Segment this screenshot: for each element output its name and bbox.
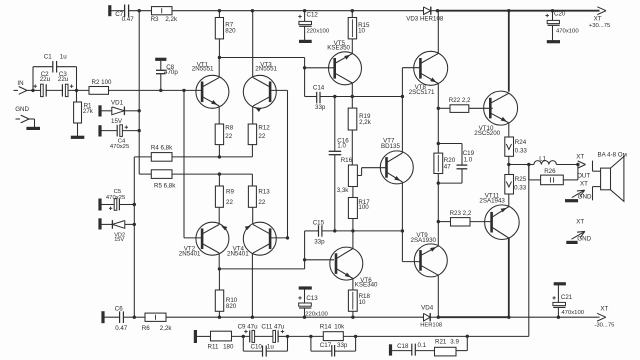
node R7 top [218, 9, 221, 12]
svg-text:R25: R25 [515, 176, 527, 183]
wire VT3 collector to +rail [252, 11, 254, 78]
svg-text:1u: 1u [60, 54, 67, 61]
node VT3 collector rail [251, 9, 254, 12]
node VT5 collector/R19 [351, 95, 354, 98]
node VT4 base feedback [286, 236, 289, 239]
wire R22 to VT10 base [469, 107, 493, 109]
resistor R23 2,2 [450, 210, 472, 226]
svg-text:HER108: HER108 [420, 323, 442, 329]
node C16 top [333, 95, 336, 98]
svg-text:820: 820 [225, 28, 236, 35]
svg-text:22: 22 [225, 133, 232, 140]
node output [507, 163, 510, 166]
capacitor C13 220x100 [298, 288, 328, 318]
ground C21 [554, 282, 566, 285]
svg-text:R23 2,2: R23 2,2 [450, 210, 472, 217]
node C6/-rail junction [133, 316, 136, 319]
svg-text:2SA1943: 2SA1943 [479, 198, 505, 205]
wire VT10 emitter to R24 [508, 123, 510, 137]
wire VT7 base tap [357, 168, 386, 176]
svg-text:R16: R16 [341, 157, 353, 164]
terminal XT GND upper [572, 181, 592, 201]
ground C4 [98, 125, 101, 136]
wire VT9 base drop [402, 231, 420, 262]
wire VD4 to VT9 node [430, 316, 438, 318]
terminal IN arrow [14, 80, 28, 95]
svg-text:820: 820 [226, 303, 237, 310]
node R15 top [351, 9, 354, 12]
svg-text:C10: C10 [251, 344, 263, 351]
capacitor C4 470x25 [110, 125, 130, 150]
svg-text:GND: GND [15, 106, 29, 113]
wire R7 to VT1 collector node [218, 39, 220, 58]
node C3/R1/C1 bracket right [75, 89, 78, 92]
node C12 top [303, 9, 306, 12]
resistor R5 6,8k [151, 170, 176, 190]
transistor VT1 2N5551 [192, 61, 229, 108]
node R20/C19 bottom [437, 181, 440, 184]
node C8 tap [159, 89, 162, 92]
capacitor C16 1.0 [329, 97, 350, 231]
ground C13 [299, 286, 312, 289]
wire VT7 collector / VAS node [401, 68, 403, 153]
node input/C1 bracket left [31, 89, 34, 92]
wire VT2 base drop to bar [184, 90, 202, 238]
svg-text:33p: 33p [314, 239, 325, 246]
node VT6 collector/R17 [351, 229, 354, 232]
transistor VT5 KSE350 [327, 40, 361, 85]
wire line to Zobel node [390, 335, 467, 337]
svg-text:15V: 15V [111, 118, 123, 125]
transistor VT9 2SA1930 [411, 232, 448, 277]
svg-text:BA 4-8 Ом: BA 4-8 Ом [598, 152, 627, 159]
node VT5 base junction [303, 66, 306, 69]
wire VT8 collector to +rail [437, 11, 439, 54]
wire R23 to VT11 base [470, 221, 493, 223]
resistor R1 27k [74, 102, 94, 123]
node output/L1 branch [527, 163, 530, 166]
svg-text:22: 22 [226, 199, 233, 206]
node R18 -rail [351, 316, 354, 319]
svg-text:0.33: 0.33 [514, 185, 527, 192]
svg-text:XT: XT [580, 181, 588, 188]
svg-text:KSE350: KSE350 [327, 45, 350, 52]
node R23 tap [437, 220, 440, 223]
wire VT6 emitter to R18 [352, 279, 354, 291]
svg-text:220x100: 220x100 [305, 312, 328, 318]
svg-text:15V: 15V [114, 237, 124, 243]
wire output line [509, 164, 534, 166]
resistor R17 100 [348, 198, 370, 219]
wire C5 to bias line [119, 204, 134, 206]
node Zobel [466, 335, 469, 338]
svg-text:0.1: 0.1 [418, 342, 427, 349]
resistor R14 10k [320, 323, 345, 340]
svg-text:R8: R8 [225, 124, 233, 131]
resistor R16 3,3k [337, 157, 358, 194]
wire R7 top [218, 11, 220, 18]
wire C17 bridge [311, 336, 356, 351]
node R26 right join [576, 163, 579, 166]
svg-text:2SA1930: 2SA1930 [411, 237, 437, 244]
wire C18 to R21 [415, 350, 434, 352]
node C5 junction [133, 203, 136, 206]
wire R9 top [218, 174, 220, 186]
svg-text:-30...75: -30...75 [594, 323, 615, 329]
wire VT4 emitter to R13 [252, 207, 254, 224]
node C13 -rail [303, 316, 306, 319]
capacitor C21 470x100 [552, 284, 584, 317]
svg-text:R11: R11 [208, 343, 219, 350]
svg-text:KSE340: KSE340 [355, 282, 378, 289]
node R20/C19 top [437, 142, 440, 145]
ground R1 [71, 136, 85, 139]
svg-text:R14: R14 [320, 323, 332, 330]
wire C9 to C11 [255, 335, 273, 337]
wire VT6 collector [352, 231, 354, 249]
resistor R21 3.9 [435, 339, 460, 356]
node VAS output upper [401, 95, 404, 98]
resistor R3 [151, 7, 178, 24]
resistor R4 6,8k [151, 145, 173, 162]
node R22 tap [437, 107, 440, 110]
wire R23 left [438, 221, 450, 223]
capacitor C19 1.0 [457, 150, 475, 169]
node feedback/C10 right [286, 335, 289, 338]
wire VT11 collector thick to -rail [508, 238, 510, 317]
node VD2 junction [133, 223, 136, 226]
svg-text:XT: XT [600, 306, 608, 313]
wire VT8 emitter down [437, 84, 439, 154]
wire R1 bottom [77, 123, 79, 137]
wire bias to R5 [139, 173, 151, 175]
wire VAS bottom corner [304, 231, 306, 269]
svg-text:C9 47u: C9 47u [238, 323, 259, 330]
wire VT4 base to feedback line [270, 237, 287, 239]
wire VT3 base to feedback line [270, 90, 287, 238]
wire R11 to C9 [232, 335, 250, 337]
terminal XT -30...75 arrow [594, 306, 615, 329]
capacitor C9 47u [238, 323, 259, 342]
node R8 tail [218, 155, 221, 158]
svg-text:IN: IN [17, 80, 23, 87]
svg-text:R13: R13 [258, 189, 270, 196]
node VT4 collector -rail [251, 316, 254, 319]
svg-text:0.33: 0.33 [515, 148, 528, 155]
resistor R11 180 [208, 331, 234, 350]
svg-text:XT: XT [576, 154, 584, 161]
wire R2 to VT1 base [109, 89, 202, 91]
resistor R10 820 [215, 290, 238, 311]
wire R15 to VT5 emitter [351, 39, 353, 54]
wire VT2 emitter to R9 [218, 207, 220, 224]
svg-text:100: 100 [358, 204, 369, 211]
capacitor C15 33p [313, 219, 325, 245]
svg-text:1.0: 1.0 [337, 143, 346, 150]
wire VT3 emitter to R12 [252, 106, 254, 124]
svg-text:C11 47u: C11 47u [261, 323, 284, 330]
wire tail line B [172, 173, 252, 175]
svg-text:C13: C13 [306, 295, 318, 302]
node VT2 base drop [182, 89, 185, 92]
wire R26 left branch [529, 165, 541, 180]
svg-text:R6: R6 [142, 325, 150, 332]
node C16 bottom [333, 229, 336, 232]
node R14/C17 left [309, 335, 312, 338]
wire VT5 base [305, 67, 335, 69]
wire R8 bottom [218, 145, 220, 157]
svg-text:33p: 33p [337, 342, 348, 349]
wire C5 left [100, 204, 114, 206]
wire VT9 collector to -rail [437, 275, 439, 317]
svg-text:470p: 470p [164, 69, 178, 76]
resistor R12 22 [248, 124, 270, 145]
transistor VT10 2SC5200 [474, 91, 517, 137]
svg-text:2N5401: 2N5401 [179, 250, 201, 257]
wire C1 bracket left [33, 67, 53, 91]
diode VD1 15V zener [111, 99, 124, 125]
wire GND terminal [29, 119, 35, 128]
svg-text:10: 10 [358, 27, 365, 34]
wire -rail mid [166, 316, 424, 318]
node C7/R3/bias junction [138, 9, 141, 12]
capacitor C7 [115, 5, 134, 23]
svg-text:C20: C20 [554, 11, 566, 18]
diode VD2 15V zener [112, 220, 125, 243]
svg-text:470x100: 470x100 [561, 310, 584, 316]
ground C6 [101, 311, 104, 323]
svg-text:33p: 33p [315, 104, 326, 111]
svg-text:R12: R12 [258, 124, 270, 131]
resistor R13 22 [248, 186, 270, 207]
wire R1 top [76, 90, 78, 102]
svg-text:C17: C17 [320, 342, 332, 349]
wire R11 left [195, 335, 210, 337]
svg-text:VD1: VD1 [111, 99, 124, 106]
svg-text:10k: 10k [334, 323, 345, 330]
node R10 -rail [218, 316, 221, 319]
wire R20 bottom to R23 node [437, 174, 439, 222]
transistor VT2 2N5401 [179, 222, 229, 257]
svg-text:C1: C1 [44, 54, 52, 61]
svg-text:R5 6,8k: R5 6,8k [154, 182, 176, 189]
ground GND terminal [26, 127, 40, 130]
svg-text:2,2k: 2,2k [359, 119, 372, 126]
svg-text:180: 180 [223, 343, 234, 350]
svg-text:+30...75: +30...75 [589, 23, 611, 29]
wire feedback to R14 [288, 335, 324, 337]
svg-text:GND: GND [577, 236, 591, 243]
wire C4 to bias line [122, 130, 139, 132]
wire R19 to R16 [351, 130, 353, 165]
capacitor C2 22u [34, 71, 51, 97]
svg-text:R2 100: R2 100 [92, 79, 113, 86]
resistor R25 0.33 [505, 175, 527, 195]
terminal XT OUT arrow [576, 154, 590, 180]
svg-text:470x100: 470x100 [556, 29, 579, 35]
wire +rail thick to XT [438, 10, 600, 12]
resistor R7 820 [215, 18, 236, 39]
node VT11 collector -rail [507, 316, 510, 319]
svg-text:470x25: 470x25 [110, 144, 130, 150]
wire mid line lower [305, 230, 319, 232]
capacitor C6 0.47 [115, 305, 128, 332]
wire bias +15 vertical [138, 11, 140, 174]
resistor R26 [541, 168, 564, 185]
capacitor C3 22u [58, 71, 73, 97]
wire R16 to R17 [352, 187, 354, 198]
wire IN to C2 [27, 89, 42, 91]
wire C6 left [103, 316, 119, 318]
svg-text:C12: C12 [307, 12, 319, 19]
node VT8 collector / thick rail start [436, 9, 439, 12]
svg-text:R22 2,2: R22 2,2 [449, 97, 471, 104]
svg-text:C14: C14 [313, 85, 325, 92]
wire Zobel to output drop [467, 335, 529, 337]
wire -rail thick [438, 316, 509, 318]
capacitor C1 1u [44, 54, 67, 73]
resistor R6 2,2k [142, 313, 173, 332]
svg-text:27k: 27k [83, 108, 94, 115]
svg-text:C6: C6 [115, 305, 123, 312]
wire -rail left [134, 316, 145, 318]
node C21 -rail [557, 316, 560, 319]
ground C12 [299, 40, 312, 43]
svg-text:10: 10 [359, 299, 366, 306]
svg-text:3,3k: 3,3k [337, 187, 350, 194]
svg-text:C18: C18 [397, 343, 409, 350]
resistor R24 0.33 [505, 137, 528, 156]
terminal XT +30...75 arrow [589, 7, 611, 29]
wire VAS bottom link [219, 268, 304, 270]
resistor R2 100 [89, 79, 112, 94]
wire C7 to node [129, 10, 152, 12]
svg-text:R26: R26 [544, 168, 556, 175]
transistor VT11 2SA1943 [479, 193, 519, 240]
wire speaker terminal lower [593, 187, 601, 201]
node R9 tail [218, 172, 221, 175]
wire L1 to XT OUT [556, 164, 578, 166]
capacitor C18 0.1 [397, 342, 427, 356]
transistor VT6 KSE340 [330, 247, 378, 289]
wire VD2 to bias line [125, 223, 135, 225]
resistor R15 10 [348, 18, 370, 39]
wire VD2 left [100, 223, 112, 225]
wire R18 bottom [352, 311, 354, 317]
ground XT GND upper bar [565, 199, 578, 202]
wire R10 top [218, 269, 220, 290]
transistor VT4 2N5401 [227, 222, 276, 257]
svg-text:2,2k: 2,2k [160, 325, 173, 332]
wire mid line upper [305, 96, 317, 98]
svg-text:R9: R9 [226, 189, 234, 196]
capacitor C14 33p [313, 85, 326, 111]
capacitor C8 470p [155, 59, 178, 90]
svg-text:R24: R24 [515, 139, 527, 146]
wire C1 bracket right [57, 67, 77, 91]
svg-text:BD135: BD135 [381, 143, 400, 150]
wire C4 left [100, 130, 117, 132]
svg-text:R4 6,8k: R4 6,8k [151, 145, 173, 152]
svg-text:47: 47 [444, 163, 451, 170]
node VD1 junction [138, 109, 141, 112]
wire C18 left [391, 350, 412, 352]
wire R19 top [351, 97, 353, 109]
resistor R8 22 [215, 124, 234, 145]
node C20 top [551, 9, 554, 12]
wire output node to R25 [508, 165, 510, 175]
resistor R20 47 [434, 153, 456, 173]
wire C3 to R2 node [68, 89, 89, 91]
wire R4 left branch [134, 157, 151, 317]
resistor R18 10 [348, 290, 370, 311]
wire mid line upper right [320, 96, 402, 98]
svg-text:C15: C15 [313, 219, 325, 226]
ground VD1 [98, 105, 101, 116]
ground R11 bar [194, 330, 197, 343]
svg-text:GND: GND [578, 194, 592, 201]
wire R14 to line [343, 335, 390, 337]
wire C7 ground bar to C7 [110, 10, 125, 12]
wire VT7 emitter [401, 182, 403, 231]
resistor R19 2,2k [348, 108, 372, 130]
capacitor C20 470x100 [546, 11, 580, 41]
wire C10 bridge [243, 336, 287, 351]
wire +rail R3 to VD3 [172, 10, 424, 12]
wire VT8 base [402, 67, 421, 69]
node +bus VT10 [507, 9, 510, 12]
wire VD1 to bias line [124, 110, 139, 112]
svg-text:2N5551: 2N5551 [255, 66, 277, 73]
terminal XT GND lower [572, 219, 592, 243]
wire output to feedback drop [528, 165, 530, 337]
wire -rail right [509, 316, 600, 318]
svg-text:22: 22 [258, 199, 265, 206]
wire VAS top corner [304, 58, 306, 97]
wire VT6 base [305, 259, 334, 261]
wire R17 bottom [352, 219, 354, 231]
wire C2 to C3 [46, 89, 62, 91]
wire to VT9 emitter [437, 222, 439, 246]
svg-text:220x100: 220x100 [307, 29, 330, 35]
wire VT1 collector stub [218, 58, 220, 78]
wire +bus thick [508, 11, 510, 92]
transistor VT3 2N5551 [243, 61, 277, 112]
capacitor C10 1u [251, 344, 275, 357]
wire R10 bottom [218, 311, 220, 317]
inductor L1 [534, 156, 557, 165]
svg-text:1.0: 1.0 [464, 156, 473, 163]
node C4 junction [138, 129, 141, 132]
svg-text:OUT: OUT [577, 173, 590, 180]
svg-text:3.9: 3.9 [450, 339, 459, 346]
svg-text:VD4: VD4 [421, 304, 434, 311]
node C9/C10 left [242, 335, 245, 338]
transistor VT7 BD135 [380, 137, 413, 184]
wire R25 to VT11 emitter [508, 194, 510, 207]
svg-text:470x25: 470x25 [106, 195, 126, 201]
wire VD1 left [100, 110, 112, 112]
ground C5 [98, 199, 101, 211]
svg-text:XT: XT [576, 219, 584, 226]
ground XT GND lower bar [566, 241, 577, 244]
node VT6 base junction [303, 258, 306, 261]
wire C19 top branch [438, 144, 462, 165]
wire R15 top [351, 11, 353, 18]
wire tail line A [172, 156, 252, 158]
svg-text:L1: L1 [539, 156, 546, 163]
wire R26 right branch [563, 165, 578, 180]
